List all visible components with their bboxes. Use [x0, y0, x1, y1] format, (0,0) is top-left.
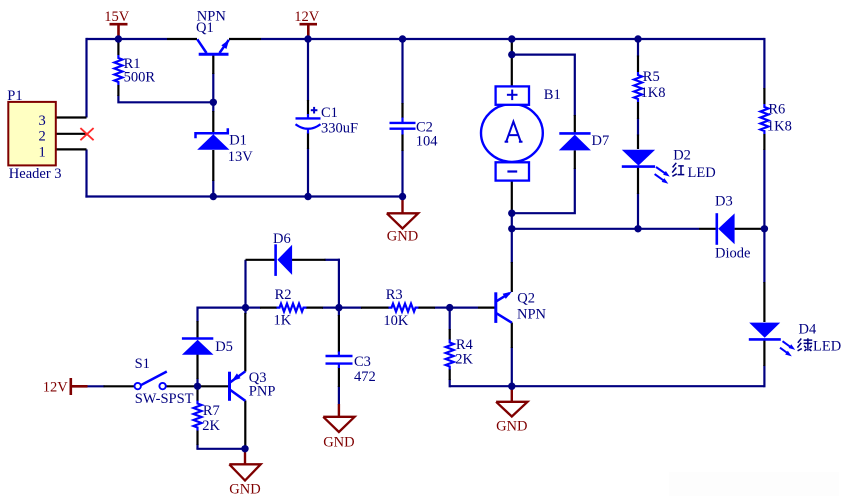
junction C2 top	[399, 35, 406, 42]
svg-text:2K: 2K	[455, 351, 473, 367]
pin D2 cathode	[637, 166, 639, 194]
pin R2 left	[260, 307, 277, 309]
junction motor minus / D7	[508, 210, 515, 217]
svg-text:10K: 10K	[383, 313, 409, 329]
pin P1-3	[56, 116, 87, 118]
svg-text:2K: 2K	[202, 418, 220, 434]
wire D6 anode corner	[325, 259, 340, 261]
junction R3/R4 node	[446, 304, 453, 311]
pin S1 left	[104, 385, 135, 387]
junction motor node / D3 row	[508, 225, 515, 232]
wire motor top branch to D7 cathode	[512, 55, 575, 116]
capacitor C1 330uF polarized	[296, 105, 359, 136]
wire node to R2 left	[246, 307, 262, 309]
wire rail right corner down to R6	[763, 38, 765, 89]
wire R7 bottom	[196, 444, 198, 449]
pin R6 bottom	[763, 134, 765, 150]
pin R5 bottom	[637, 102, 639, 119]
resistor R4 2K	[446, 337, 474, 369]
wire node down to Q3 upper pin	[244, 308, 246, 314]
pin R1 bottom	[117, 85, 119, 96]
pin Q1 collector	[167, 38, 197, 40]
svg-text:330uF: 330uF	[321, 120, 358, 136]
svg-text:PNP: PNP	[249, 384, 276, 400]
wire node down to C3	[338, 308, 340, 316]
junction C1 bottom on bottom rail	[304, 193, 311, 200]
svg-text:R6: R6	[768, 102, 785, 118]
svg-text:C3: C3	[354, 354, 371, 370]
pin R4 top	[449, 329, 451, 340]
pin C3 top	[338, 315, 340, 353]
wire R1 bottom to Q1 base node	[118, 95, 213, 102]
wire bottom right rail	[450, 385, 765, 387]
ground GND under C2	[387, 197, 418, 245]
LED D4 green	[749, 322, 817, 357]
wire 15V node to R1	[117, 39, 119, 43]
wire R5 to D2	[637, 118, 639, 136]
svg-text:Q1: Q1	[196, 20, 214, 36]
pin C1 bottom	[307, 133, 309, 150]
svg-text:C1: C1	[321, 105, 338, 121]
pin C2 top	[401, 103, 403, 118]
svg-text:Header 3: Header 3	[9, 166, 62, 182]
resistor R6 1K8	[760, 102, 791, 135]
svg-text:D6: D6	[273, 231, 291, 247]
wire C1 bottom to bottom rail	[307, 148, 309, 197]
transistor Q3 PNP	[230, 370, 276, 401]
ground GND under Q2 emitter	[496, 386, 527, 434]
pin P1-1	[56, 148, 87, 150]
zener diode D1 13V	[196, 128, 254, 165]
svg-text:LED: LED	[688, 165, 716, 181]
svg-text:D4: D4	[799, 322, 817, 338]
svg-text:1: 1	[39, 145, 46, 161]
svg-text:D5: D5	[215, 339, 233, 355]
svg-text:12V: 12V	[43, 379, 68, 395]
junction D1 anode on bottom rail	[210, 193, 217, 200]
label 绿LED for D4	[797, 338, 841, 354]
svg-text:GND: GND	[323, 434, 354, 450]
transistor Q2 NPN	[496, 291, 547, 323]
pin D1 anode	[212, 150, 214, 181]
power bar 15V	[104, 9, 130, 39]
wire bottom rail of top section	[85, 195, 402, 197]
svg-text:R7: R7	[203, 403, 220, 419]
junction R2/C3 node	[335, 304, 342, 311]
connector P1 Header 3	[7, 88, 61, 182]
junction R5 top	[634, 35, 641, 42]
pin D1 cathode	[212, 111, 214, 132]
resistor R2 1K	[274, 287, 307, 329]
svg-text:13V: 13V	[228, 149, 254, 165]
svg-text:GND: GND	[496, 419, 527, 435]
pin B1 plus terminal	[511, 39, 513, 86]
wire D5 column upper	[196, 307, 198, 323]
svg-text:D7: D7	[592, 133, 610, 149]
pin R5 top	[637, 56, 639, 73]
pin D2 anode	[637, 135, 639, 150]
svg-text:B1: B1	[544, 87, 561, 103]
junction Q1 base / R1 / D1	[210, 99, 217, 106]
junction D3 anode / R6	[761, 225, 768, 232]
wire C2 bottom to bottom rail / GND node	[401, 150, 403, 197]
pin Q3 emitter (upper)	[244, 313, 246, 372]
svg-text:R3: R3	[386, 287, 403, 303]
svg-text:1K: 1K	[274, 313, 292, 329]
wire Q3 lower pin to GND node	[244, 445, 246, 449]
wire motor bottom node down	[511, 213, 513, 229]
pin Q2 base	[478, 307, 496, 309]
label 红LED for D2	[672, 163, 715, 181]
diode D5	[182, 339, 233, 356]
wire D7 anode to motor bottom node	[512, 168, 575, 213]
svg-text:SW-SPST: SW-SPST	[135, 391, 194, 407]
wire Q2 emitter to GND node	[511, 347, 513, 386]
svg-text:D2: D2	[673, 148, 691, 164]
pin D3 anode	[735, 228, 762, 230]
wire down toward Q2 collector	[511, 229, 513, 263]
svg-text:R2: R2	[275, 287, 292, 303]
wire D1 cathode... anode to bottom rail	[212, 180, 214, 197]
diode D6	[273, 231, 292, 276]
svg-text:2: 2	[39, 128, 46, 144]
junction D5/D6/R2/Q3 node	[242, 304, 249, 311]
wire Q1 base to D1 node	[212, 73, 214, 112]
resistor R7 2K	[194, 401, 221, 435]
svg-text:S1: S1	[135, 356, 150, 372]
wire motor node to D3	[512, 228, 699, 230]
svg-text:15V: 15V	[104, 9, 130, 25]
svg-text:GND: GND	[229, 481, 260, 497]
pin P1-2 (no connect)	[56, 133, 87, 135]
svg-text:3: 3	[39, 113, 46, 129]
svg-text:472: 472	[354, 369, 376, 385]
svg-text:500R: 500R	[124, 69, 156, 85]
pin D6 anode	[292, 259, 326, 261]
ground GND under R7/Q3	[229, 449, 260, 498]
svg-text:D1: D1	[229, 133, 247, 149]
pin C1 top	[307, 100, 309, 115]
pin D7 anode	[574, 150, 576, 169]
power port 12V left	[43, 378, 88, 395]
wire D6 left corner column	[244, 260, 246, 308]
wire top rail 12V net	[261, 38, 764, 40]
svg-text:LED: LED	[813, 339, 841, 355]
pin Q1 emitter	[229, 38, 261, 40]
pin B1 minus terminal	[511, 181, 513, 214]
pin C2 bottom	[401, 134, 403, 151]
svg-text:NPN: NPN	[517, 306, 547, 322]
wire C3 bottom to GND stem	[338, 386, 340, 405]
svg-text:Q2: Q2	[517, 291, 535, 307]
wire D3 node down to D4	[763, 229, 765, 283]
junction C2 bottom / GND	[399, 193, 406, 200]
wire D6 right column down to R2 node	[338, 259, 340, 308]
pin S1 right	[166, 385, 197, 387]
svg-text:1K8: 1K8	[641, 85, 666, 101]
pin Q2 emitter	[511, 323, 513, 349]
pin D7 cathode	[574, 115, 576, 132]
svg-text:R5: R5	[643, 69, 660, 85]
junction B1 top	[508, 35, 515, 42]
pin R6 top	[763, 88, 765, 104]
LED D2 red	[622, 148, 691, 184]
wire R4 bottom to rail corner	[449, 379, 451, 387]
junction D2 bottom	[634, 225, 641, 232]
pin Q2 collector	[511, 262, 513, 292]
pin Q3 collector (lower)	[244, 401, 246, 447]
junction 12V node	[304, 35, 311, 42]
wire R3 right to node	[434, 307, 450, 309]
wire R3 to Q2 base	[450, 307, 478, 309]
pin D4 anode	[763, 282, 765, 322]
wire rail down to C2	[401, 39, 403, 104]
pin R7 top	[196, 386, 198, 401]
wire D5 top to R2 node	[198, 307, 246, 309]
transistor Q1 NPN	[196, 9, 229, 55]
pin R4 bottom	[449, 369, 451, 380]
pin Q3 base	[198, 385, 229, 387]
resistor R1 500R	[114, 55, 155, 85]
resistor R3 10K	[383, 287, 418, 329]
pin D4 cathode	[763, 340, 765, 367]
wire left column lower (pin 1 to bottom rail)	[85, 149, 87, 197]
capacitor C2 104	[390, 118, 439, 150]
svg-text:104: 104	[416, 133, 439, 149]
junction Q2 emitter / GND	[508, 383, 515, 390]
wire 12V port to S1	[87, 385, 105, 387]
pin D5 anode	[196, 355, 198, 380]
wire D3 anode to R6 column	[761, 228, 764, 230]
pin R3 right	[418, 307, 435, 309]
ground GND under C3	[323, 404, 354, 450]
svg-text:GND: GND	[387, 228, 418, 244]
pin D5 cathode	[196, 321, 198, 338]
wire R7 to Q3 emitter GND node	[196, 448, 245, 450]
capacitor C3 472	[326, 352, 376, 386]
wire R2 right to R3 left	[322, 307, 362, 309]
pin R7 bottom	[196, 431, 198, 446]
wire rail to R5	[637, 39, 639, 57]
resistor R5 1K8	[634, 69, 665, 102]
wire left column upper (pin 3 to rail)	[85, 38, 87, 118]
motor B1 (ammeter symbol)	[481, 86, 561, 180]
wire D2 cathode down to node	[637, 193, 639, 229]
power bar 12V top	[294, 9, 320, 39]
pin D6 cathode	[246, 259, 276, 261]
diode D7	[559, 133, 609, 150]
pin R3 left	[361, 307, 389, 309]
svg-text:Diode: Diode	[715, 246, 750, 262]
wire R6 to D3 node	[763, 149, 765, 229]
wire 12V rail down to C1	[307, 39, 309, 101]
pin D3 cathode	[699, 228, 716, 230]
junction S1 / D5 / R7 / Q3 base	[194, 383, 201, 390]
svg-text:1K8: 1K8	[767, 119, 792, 135]
pin R2 right	[306, 307, 323, 309]
pin C3 bottom	[338, 367, 340, 387]
svg-text:P1: P1	[7, 88, 22, 104]
junction D7 branch	[508, 51, 515, 58]
wire top rail 15V side	[87, 38, 168, 40]
wire D5 anode to switch node	[196, 378, 198, 386]
pin Q1 base	[212, 56, 214, 75]
pin R1 top	[117, 42, 119, 55]
junction 15V node	[115, 35, 122, 42]
faint scan artifact bottom right	[669, 472, 839, 496]
svg-text:D3: D3	[715, 194, 733, 210]
wire R3/R4 node down	[449, 308, 451, 330]
svg-text:12V: 12V	[294, 9, 320, 25]
switch S1 SW-SPST	[135, 356, 194, 407]
no-connect X on P1 pin 2	[80, 128, 93, 140]
diode D3	[715, 194, 750, 262]
junction R7 / Q3 / GND	[241, 445, 248, 452]
wire D4 cathode to bottom right rail	[763, 365, 765, 387]
